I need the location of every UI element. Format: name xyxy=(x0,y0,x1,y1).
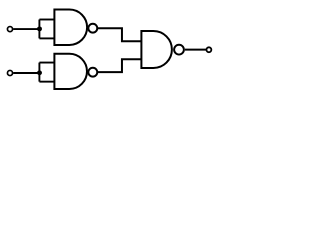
junction dot J1 xyxy=(37,26,42,31)
nand gate U1 bubble xyxy=(88,24,97,33)
wire stub U1 input 1 xyxy=(39,19,54,21)
input terminal B xyxy=(7,70,12,75)
wire U1 output to U3 input 1 xyxy=(98,28,141,41)
wire riser J2 xyxy=(38,63,40,82)
wire A to junction xyxy=(13,28,39,30)
wire B to junction xyxy=(13,72,39,74)
wire U3 output xyxy=(185,49,206,51)
input terminal A xyxy=(7,27,12,32)
nand gate U1 body xyxy=(54,10,87,45)
nand gate U2 bubble xyxy=(88,68,97,77)
nand gate U2 body xyxy=(54,54,87,89)
junction dot J2 xyxy=(37,70,42,75)
wire riser J1 xyxy=(38,20,40,39)
output terminal Y xyxy=(206,47,211,52)
nand gate U3 bubble xyxy=(174,45,184,55)
wire stub U2 input 1 xyxy=(39,62,54,64)
wire stub U1 input 2 xyxy=(39,37,54,39)
nand gate U3 body xyxy=(141,31,172,68)
wire stub U2 input 2 xyxy=(39,81,54,83)
wire U2 output to U3 input 2 xyxy=(98,59,141,72)
